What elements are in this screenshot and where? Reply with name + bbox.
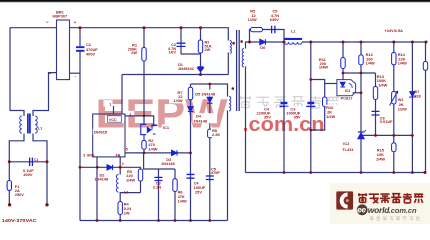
wire D5 R8 C5b column: [209, 84, 211, 220]
svg-text:250V: 250V: [15, 192, 24, 197]
svg-text:4: 4: [129, 113, 131, 117]
node rail3-R11: [342, 41, 345, 44]
node C1 right: [46, 160, 49, 163]
wire R10 net: [311, 80, 325, 131]
wire primary column: [227, 27, 229, 40]
wire secondary top lead: [246, 42, 285, 49]
svg-text:1/4W: 1/4W: [398, 61, 407, 66]
node rail2-R4: [119, 219, 122, 222]
node sec-snubber: [248, 41, 251, 44]
svg-text:630V: 630V: [270, 17, 279, 22]
wire R1 column: [143, 28, 145, 125]
transformer T1 secondary winding: [242, 49, 244, 68]
node rail4-TL431: [360, 171, 363, 174]
svg-text:1/4W: 1/4W: [366, 61, 375, 66]
node rail3-C3: [309, 41, 312, 44]
node rail2-gnd: [96, 219, 99, 222]
node rail2-C5b: [208, 219, 211, 222]
wire secondary bottom column: [245, 67, 247, 173]
wire fb line: [125, 152, 191, 154]
node pin4-R1: [143, 115, 146, 118]
inductor L2: [116, 175, 118, 193]
node rail-C2: [79, 26, 82, 29]
svg-text:400V: 400V: [23, 172, 32, 177]
resistor R2: [198, 40, 202, 53]
watermark .com.cn: [243, 113, 325, 136]
resistor R2b: [142, 140, 146, 149]
logo slogan tiny: [370, 216, 420, 220]
wire opto emitter stub: [353, 92, 362, 94]
fuse F1: [7, 181, 11, 191]
capacitor C1: [30, 158, 33, 167]
capacitor C4: [280, 103, 289, 106]
wire L2 R4 column: [119, 167, 121, 174]
mosfet IC1: [141, 124, 158, 140]
svg-text:ee: ee: [357, 206, 366, 215]
node rail3-R14: [392, 41, 395, 44]
wire R6 column: [174, 169, 176, 220]
node rail2-C4b: [189, 219, 192, 222]
node ref-D7: [411, 134, 414, 137]
svg-text:1/4W: 1/4W: [319, 65, 328, 70]
inductor L1: [284, 38, 302, 44]
logo square: [336, 191, 353, 209]
top border: [0, 0, 430, 2]
svg-text:2.2N: 2.2N: [153, 185, 161, 190]
svg-text:828: 828: [414, 94, 421, 99]
svg-text:D6: D6: [260, 45, 266, 50]
resistor R1: [142, 48, 146, 62]
bridge rectifier BR1: [57, 20, 70, 80]
svg-text:.com.cn: .com.cn: [389, 206, 417, 215]
node C1 left: [8, 160, 11, 163]
node C3-R10 top: [309, 78, 312, 81]
wire R14 W1 R15 column: [393, 42, 395, 173]
wire D7 column: [411, 42, 413, 173]
wire top rail right of BR1: [70, 27, 229, 29]
resistor R4: [118, 202, 122, 215]
svg-text:world: world: [368, 205, 390, 215]
wire pin1 stub: [113, 106, 115, 114]
wire AC input left drop to choke: [10, 27, 24, 116]
wire C2b column: [180, 28, 182, 54]
optocoupler U2 box: [337, 80, 356, 96]
node fb-R2b: [143, 152, 146, 155]
svg-text:3: 3: [83, 153, 85, 157]
wire primary bottom rail: [80, 220, 228, 222]
resistor R8: [208, 129, 212, 138]
svg-text:TL431: TL431: [342, 147, 354, 152]
svg-text:~: ~: [46, 20, 49, 26]
svg-text:0.01UF: 0.01UF: [380, 119, 393, 124]
wire R11 column: [342, 42, 344, 80]
node C3-R10 bottom: [309, 129, 312, 132]
svg-text:1/2W: 1/2W: [398, 107, 407, 112]
resistor R3: [138, 169, 142, 181]
wire D1 column: [200, 54, 202, 75]
svg-text:470P: 470P: [211, 170, 220, 175]
svg-text:VCC: VCC: [109, 118, 117, 122]
svg-text:140V-370VAC: 140V-370VAC: [2, 218, 38, 223]
svg-text:1N4148: 1N4148: [193, 118, 207, 123]
eeworld logo block: [330, 183, 430, 224]
node bias-D5: [208, 83, 211, 86]
node rail2-C3b: [157, 219, 160, 222]
choke L1 core: [28, 114, 30, 134]
svg-text:D5 1N4148: D5 1N4148: [195, 91, 216, 96]
svg-text:1/4W: 1/4W: [378, 82, 387, 87]
capacitor C5: [272, 26, 275, 33]
wire tl431 ref line: [361, 134, 412, 136]
resistor R6: [173, 179, 177, 192]
node phase secondary: [240, 40, 243, 43]
wire C4b bias column: [190, 84, 192, 220]
wire drain line: [122, 74, 228, 76]
svg-text:1/4W: 1/4W: [126, 177, 135, 182]
svg-text:2.2K: 2.2K: [212, 132, 220, 137]
svg-text:+24V/2.5A: +24V/2.5A: [385, 28, 404, 33]
node AC terminal R: [45, 203, 48, 206]
node rail3-R12: [360, 41, 363, 44]
svg-text:KBP307: KBP307: [53, 13, 68, 18]
diode D1: [198, 67, 204, 72]
node R12-opto: [360, 72, 363, 75]
svg-text:~: ~: [48, 72, 52, 78]
svg-text:1/4W: 1/4W: [178, 198, 187, 203]
svg-text:35V: 35V: [294, 115, 301, 120]
node opto emitter: [360, 91, 363, 94]
svg-text:GND: GND: [87, 153, 95, 157]
transformer core: [236, 30, 238, 111]
svg-text:FB: FB: [116, 153, 121, 157]
resistor R14: [392, 53, 396, 65]
svg-text:2W: 2W: [131, 50, 137, 55]
capacitor C2b: [177, 43, 186, 46]
wire C4 output column: [283, 42, 285, 173]
wire top rail left of BR1: [10, 27, 57, 29]
diode D6: [260, 39, 266, 45]
node rail2-R6: [174, 219, 177, 222]
svg-text:2: 2: [122, 162, 124, 166]
wire C3b column: [144, 153, 175, 169]
opto LED: [340, 82, 345, 87]
node D2 right: [119, 166, 122, 169]
transformer T1 bias winding: [229, 97, 231, 111]
node rail4-R15: [392, 171, 395, 174]
svg-text:1/2W: 1/2W: [248, 17, 257, 22]
capacitor C6: [372, 111, 380, 115]
transformer T1 primary winding: [230, 41, 232, 54]
svg-text:5: 5: [126, 147, 128, 151]
node rail4-C4: [283, 171, 286, 174]
wire gnd drop: [96, 157, 98, 220]
resistor R10: [323, 97, 327, 107]
svg-text:1W: 1W: [124, 211, 130, 216]
wire R12 TL431 column: [360, 42, 362, 132]
wire R13 C6 column: [375, 73, 377, 135]
svg-text:400V: 400V: [86, 52, 95, 57]
diode D7 zener: [409, 92, 415, 98]
svg-text:1/2W: 1/2W: [326, 114, 335, 119]
wire choke bottom left / F1 column: [9, 134, 24, 205]
watermark EEPW: [96, 91, 228, 137]
wire C2 bulk column: [79, 28, 81, 47]
diode D5: [207, 97, 212, 103]
node AC terminal L: [8, 203, 11, 206]
node rail-R2: [199, 26, 202, 29]
logo chinese title: [358, 193, 423, 203]
wire L1 to rail: [302, 41, 426, 43]
wire opto led stub: [325, 83, 337, 85]
wire D2 line: [80, 166, 120, 168]
node fb-C4b: [189, 152, 192, 155]
IC box U1: [93, 114, 125, 157]
svg-text:1/4W: 1/4W: [148, 146, 157, 151]
svg-text:PC817: PC817: [341, 95, 353, 100]
svg-text:1N4934C: 1N4934C: [178, 66, 195, 71]
svg-text:1/4W: 1/4W: [376, 156, 385, 161]
wire bias bottom column: [227, 111, 229, 221]
resistor R15: [392, 143, 396, 152]
node D2 left: [79, 166, 82, 169]
wire drain drop to IC: [121, 75, 123, 115]
diode D4: [188, 107, 193, 112]
wire bias top line: [191, 84, 228, 97]
wire pin2 drop: [119, 157, 121, 167]
node rail4-end: [424, 171, 427, 174]
svg-text:1KV: 1KV: [168, 50, 176, 55]
resistor R5: [251, 28, 263, 32]
svg-text:1N4915: 1N4915: [93, 130, 107, 135]
node rail-C2b: [180, 26, 183, 29]
wire choke bottom right column: [33, 134, 47, 205]
wire C3 column: [310, 42, 312, 173]
capacitor C3b: [155, 177, 163, 180]
wire R2 column: [200, 28, 202, 54]
svg-text:1N4148: 1N4148: [161, 161, 175, 166]
node rail-R1: [143, 26, 146, 29]
svg-text:1N4148: 1N4148: [95, 176, 109, 181]
diode D2: [107, 165, 113, 170]
node D6-C4: [283, 41, 286, 44]
capacitor C3: [306, 103, 315, 106]
svg-text:25V: 25V: [195, 190, 202, 195]
TL431 U3: [358, 130, 366, 139]
wire opto collector line: [343, 72, 376, 74]
wire BR1 ac2 to choke: [33, 73, 56, 116]
node D1-drain: [199, 73, 202, 76]
node R11-opto: [342, 72, 345, 75]
resistor R13: [373, 87, 377, 100]
wire BR1 minus stub: [70, 72, 80, 74]
svg-text:IC3: IC3: [345, 89, 351, 93]
svg-text:C1: C1: [34, 158, 39, 162]
svg-text:2W: 2W: [205, 47, 211, 52]
resistor R11: [341, 58, 345, 69]
node rail4-D7: [411, 171, 414, 174]
resistor R7: [188, 87, 192, 100]
node ref-C6: [374, 134, 377, 137]
wire snubber join: [181, 53, 201, 55]
wire R3 branch: [120, 167, 140, 169]
capacitor C5b: [206, 176, 214, 180]
svg-text:1/4W: 1/4W: [173, 98, 182, 103]
wire pin4 gate: [125, 116, 154, 125]
diode D3: [172, 150, 178, 155]
wire secondary bottom rail: [246, 172, 426, 174]
wire R16 column: [425, 42, 427, 173]
svg-text:35V: 35V: [264, 115, 271, 120]
wire mosfet source to R2b: [143, 149, 145, 153]
svg-text:IC1: IC1: [163, 125, 170, 130]
svg-text:1: 1: [110, 102, 112, 106]
wire C1 across: [9, 161, 47, 163]
choke L1 right winding: [35, 116, 37, 133]
choke L1 left winding: [20, 116, 22, 133]
wire secondary snubber loop: [250, 30, 285, 43]
node phase primary: [232, 42, 235, 45]
svg-text:IC2: IC2: [343, 141, 350, 146]
node rail3-D7: [411, 41, 414, 44]
resistor R16: [423, 62, 427, 71]
node rail4-C3: [309, 171, 312, 174]
capacitor C4b: [187, 174, 195, 178]
node rail3-end: [425, 41, 428, 44]
watermark chinese grey: [240, 96, 339, 108]
node phase bias: [232, 87, 235, 90]
capacitor C2 bulk: [76, 47, 85, 51]
resistor R12: [359, 55, 363, 65]
node gnd-D2 cross: [96, 166, 99, 169]
node ref-R15: [392, 134, 395, 137]
logo eeworld.com.cn: [357, 204, 368, 215]
potentiometer W1: [390, 91, 398, 106]
